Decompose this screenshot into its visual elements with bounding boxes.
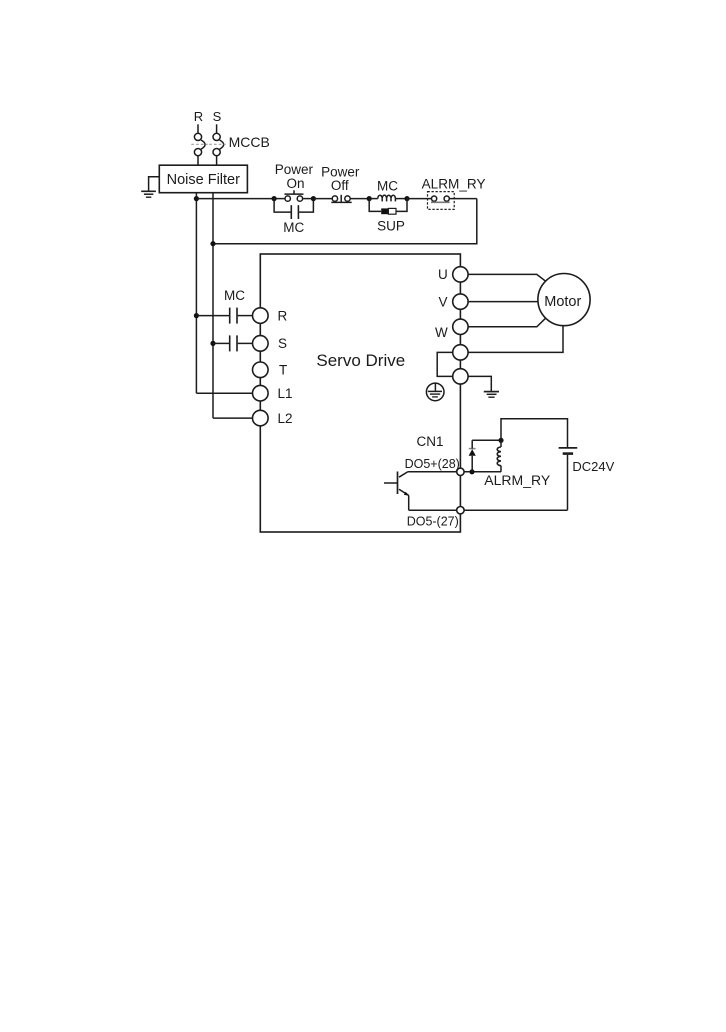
wire control line left segment	[196, 198, 274, 200]
contact MC main pole S	[213, 335, 253, 351]
node control line tap on R bus	[194, 196, 199, 201]
transistor Q1 alarm output	[384, 472, 409, 511]
svg-text:On: On	[286, 176, 304, 191]
svg-text:S: S	[213, 109, 222, 124]
noise filter box	[159, 165, 247, 193]
svg-text:U: U	[438, 267, 448, 282]
svg-text:V: V	[438, 294, 447, 309]
battery DC24V	[559, 448, 578, 510]
wire control line right segment	[449, 198, 477, 200]
wire R lead into MCCB	[197, 124, 199, 133]
svg-text:DO5+(28): DO5+(28)	[405, 457, 460, 471]
pushbutton Power Off (normally closed)	[331, 195, 351, 203]
motor	[538, 274, 590, 326]
node MC contact tap S row	[210, 341, 215, 346]
node MC contact tap R row	[194, 313, 199, 318]
wire relay coil top to battery positive	[501, 419, 568, 447]
pushbutton Power On (normally open)	[274, 190, 313, 201]
node Power On left junction	[272, 196, 277, 201]
svg-text:L1: L1	[278, 386, 293, 401]
flywheel diode D1	[469, 440, 476, 472]
wire	[407, 198, 432, 200]
svg-text:DO5-(27): DO5-(27)	[407, 514, 459, 528]
terminal DO5- pin 27	[457, 507, 464, 514]
wire L2 feed	[213, 417, 253, 419]
relay contact ALRM_RY dashed enclosure	[428, 192, 455, 210]
svg-text:R: R	[278, 308, 288, 323]
ground at noise filter	[141, 177, 159, 197]
svg-text:MC: MC	[224, 288, 245, 303]
wire control return right side	[213, 199, 477, 244]
wire phase S bus from noise filter down to L2 row	[212, 193, 214, 418]
terminal ground link lower	[453, 369, 468, 384]
terminal U	[453, 267, 468, 282]
svg-text:L2: L2	[278, 411, 293, 426]
label Power Off	[321, 165, 360, 194]
wire diode top to relay coil top	[472, 439, 501, 441]
chassis ground symbol	[484, 392, 499, 398]
wire DO5+ node link	[464, 471, 501, 473]
wire L1 feed	[196, 392, 252, 394]
svg-text:MC: MC	[377, 178, 398, 193]
wire chassis ground from lower link terminal	[468, 376, 491, 391]
wire	[313, 198, 332, 200]
svg-text:SUP: SUP	[377, 218, 405, 233]
wire MCCB pole R to noise filter	[197, 156, 199, 166]
svg-text:R: R	[194, 109, 203, 124]
svg-text:T: T	[279, 363, 287, 378]
node control return tap on S bus	[210, 241, 215, 246]
wire	[350, 198, 369, 200]
wire U to motor	[468, 274, 545, 281]
svg-text:Off: Off	[331, 178, 349, 193]
terminal L1	[252, 385, 268, 401]
svg-text:CN1: CN1	[417, 434, 444, 449]
breaker MCCB pole R	[191, 133, 207, 155]
svg-text:DC24V: DC24V	[572, 459, 614, 474]
wire V to motor	[468, 301, 538, 303]
node MC coil right junction	[404, 196, 409, 201]
terminal R	[252, 308, 268, 324]
wire W to motor	[468, 318, 545, 327]
node MC coil left junction	[367, 196, 372, 201]
relay contact ALRM_RY	[431, 196, 450, 202]
svg-text:ALRM_RY: ALRM_RY	[484, 472, 551, 488]
contactor coil MC	[369, 195, 407, 201]
terminal W	[453, 319, 468, 334]
terminal DO5+ pin 28	[457, 468, 464, 475]
terminal L2	[252, 410, 268, 426]
svg-text:MC: MC	[283, 220, 304, 235]
contact MC holding (parallel with Power On)	[274, 199, 313, 219]
wire DO5- to battery negative	[464, 509, 567, 511]
breaker MCCB pole S	[209, 133, 226, 155]
protective earth symbol	[426, 383, 444, 401]
servo drive box	[260, 254, 460, 532]
wire DO5- lead	[409, 509, 457, 511]
terminal V	[453, 294, 468, 309]
svg-text:Servo Drive: Servo Drive	[316, 351, 405, 370]
surge suppressor SUP branch	[369, 199, 407, 215]
svg-text:ALRM_RY: ALRM_RY	[422, 176, 486, 191]
wire MCCB pole S to noise filter	[216, 156, 218, 166]
svg-text:W: W	[435, 325, 448, 340]
svg-text:Noise Filter: Noise Filter	[167, 172, 240, 188]
svg-text:S: S	[278, 336, 287, 351]
wire motor ground return	[468, 326, 563, 353]
terminal T	[252, 362, 268, 378]
wire phase R bus from noise filter down to L1 row	[195, 193, 197, 394]
svg-text:Motor: Motor	[544, 294, 581, 310]
contact MC main pole R	[196, 308, 252, 324]
wire S lead into MCCB	[216, 124, 218, 133]
terminal ground link upper	[453, 345, 468, 360]
relay coil ALRM_RY	[497, 440, 501, 472]
label Power On	[275, 162, 314, 191]
node Power On right junction	[311, 196, 316, 201]
node diode relay branch at DO5+	[469, 469, 474, 474]
wire DO5+ lead	[408, 471, 457, 473]
wire ground link bracket	[437, 352, 453, 376]
svg-text:MCCB: MCCB	[229, 134, 270, 150]
node relay coil top	[498, 438, 503, 443]
terminal S	[252, 336, 268, 352]
